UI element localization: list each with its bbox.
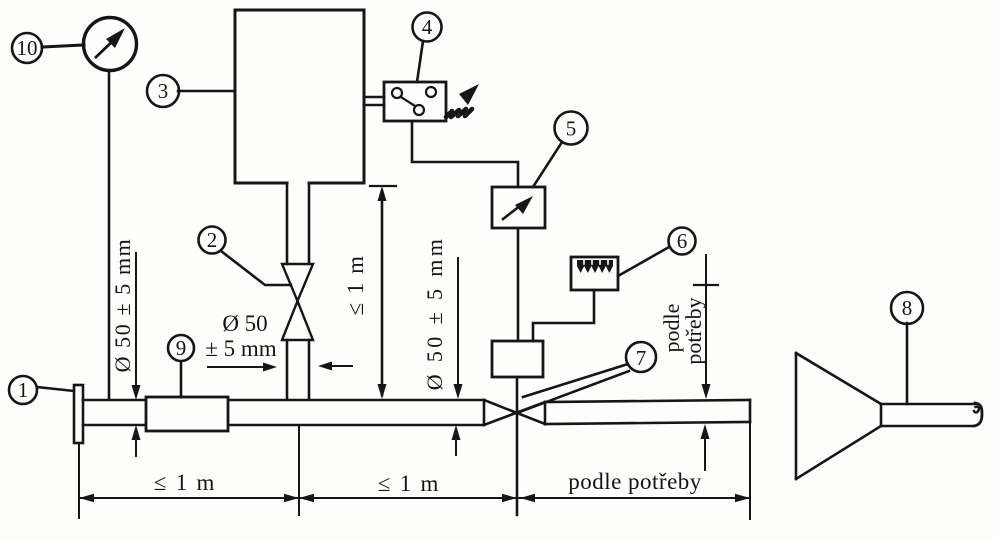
svg-text:Ø 50 ± 5 mm: Ø 50 ± 5 mm [422,236,447,391]
svg-text:5: 5 [566,117,577,141]
leader 5 [533,142,562,187]
svg-text:10: 10 [17,36,38,60]
leader 1 [37,387,74,391]
leader 10 [42,45,84,47]
spark arrow at switch [446,84,479,117]
dim arrow down (podle potřeby) [694,255,718,399]
leader 6 [618,247,669,276]
leader 8 [906,323,909,404]
dim arrow pointing right at neck [208,363,277,372]
wire sensor 5 to tap box [517,228,520,341]
valve 2 [282,264,313,340]
pressure gauge 10 [84,18,137,71]
leader 4 [417,41,423,82]
stub wires vessel to switch [364,97,384,105]
funnel tube [881,403,982,426]
pipe end bar [483,400,486,425]
dimension line bottom [79,494,750,502]
svg-text:7: 7 [636,346,647,370]
svg-text:≤ 1 m: ≤ 1 m [154,470,217,495]
leader 2 [221,251,291,285]
item circle 6 [669,228,696,255]
sensor box 5 [492,187,545,228]
vessel 3 [235,10,364,183]
wire recorder 6 to tap box [533,290,594,341]
item circle 10 [12,33,42,63]
neck lower walls [286,340,289,399]
svg-text:4: 4 [422,15,433,39]
wire tap box down to dimension [516,377,519,515]
item circle 4 [413,13,442,42]
svg-text:6: 6 [677,229,688,253]
inlet flange [74,385,83,443]
item circle 9 [168,335,194,361]
recorder box 6 [571,257,618,290]
switch box 4 [384,82,446,121]
item circle 8 [891,292,923,324]
dim arrow down to pipe (left) [132,253,141,400]
dim arrow up (podle potřeby) [701,424,710,470]
item circle 5 [555,112,588,145]
flow straightener 9 [146,397,228,431]
leader 9 [180,362,183,397]
wire switch 4 to sensor 5 [412,121,518,187]
pipe upstream bottom [83,424,484,427]
svg-text:Ø 50: Ø 50 [222,311,267,336]
item circle 7 [626,342,656,372]
svg-text:3: 3 [158,79,169,103]
wire gauge to pipe [108,71,111,399]
extension line left (flange) [78,443,80,518]
item circle 1 [9,376,37,404]
item circle 2 [199,227,226,254]
dim arrow up to pipe (right) [452,425,461,455]
svg-text:8: 8 [902,296,913,320]
tap box at venturi [492,341,543,377]
extension line right end [749,423,751,519]
dim arrow up to pipe (left) [132,425,141,456]
svg-text:Ø 50 ± 5 mm: Ø 50 ± 5 mm [110,238,135,373]
leader 7 lower [517,371,629,413]
extension line valve centre [298,426,300,515]
leader 7 upper [523,364,628,397]
svg-text:2: 2 [207,228,218,252]
svg-text:± 5 mm: ± 5 mm [205,336,277,361]
svg-text:9: 9 [176,336,187,360]
neck upper walls [286,183,289,264]
venturi cone lines [484,400,545,424]
vertical dimension ≤ 1 m [370,186,396,399]
svg-text:1: 1 [18,378,29,402]
svg-text:≤ 1 m: ≤ 1 m [343,254,368,315]
pipe upstream top [83,399,484,402]
svg-text:≤ 1 m: ≤ 1 m [378,471,441,496]
dim arrow pointing left at neck [318,362,352,371]
svg-text:podle potřeby: podle potřeby [568,469,702,494]
funnel 8 [796,353,881,479]
svg-text:potřeby: potřeby [681,297,706,364]
pipe downstream [545,400,750,424]
dim arrow down to pipe (right) [454,258,463,399]
item circle 3 [147,75,179,107]
leader 3 [178,90,235,93]
